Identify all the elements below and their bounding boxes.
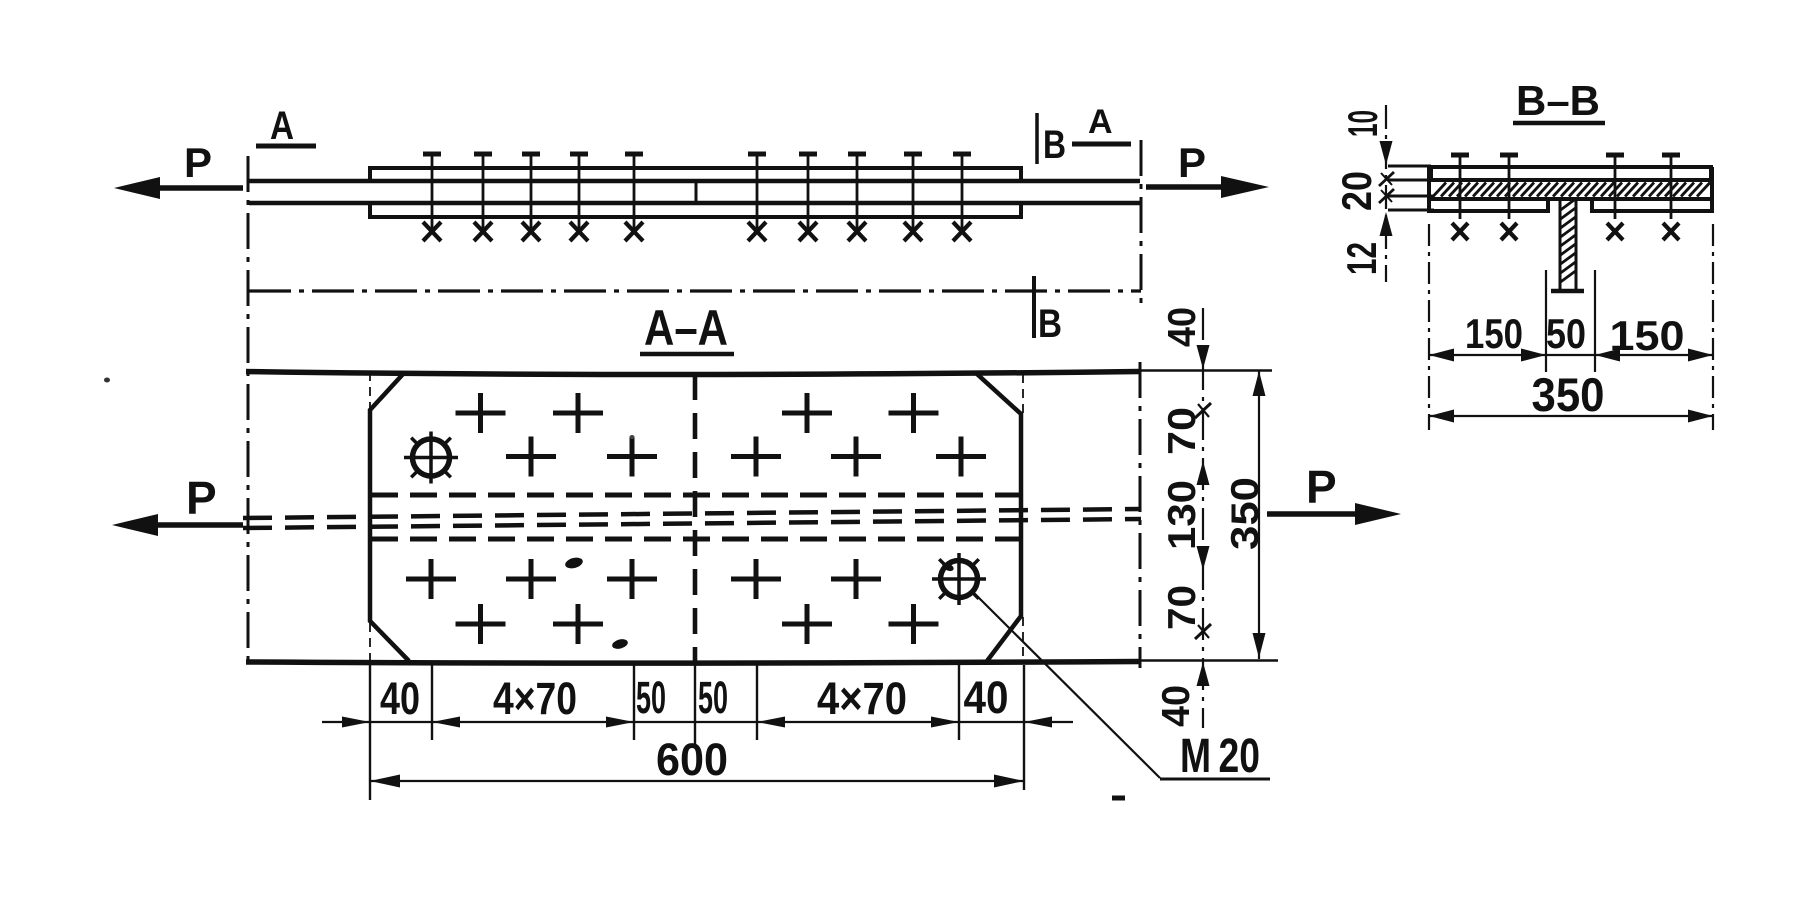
chain arrow up at y=461 xyxy=(1197,461,1210,485)
arrows 350 (B-B) xyxy=(1429,410,1713,423)
bolt 8 (side view) xyxy=(848,154,866,241)
circled bolt M20 upper-left (plan) xyxy=(404,432,458,484)
bolt cross row1 col4 (plan) xyxy=(553,393,603,433)
splice plate left edge with chamfers xyxy=(370,373,409,661)
svg-text:12: 12 xyxy=(1338,242,1385,275)
section mark B top tick xyxy=(1035,113,1039,164)
witness dash-dot left x=1429 (B-B) xyxy=(1428,224,1430,430)
bottom cover plate right (B-B) xyxy=(1592,199,1712,211)
svg-text:B–B: B–B xyxy=(1516,77,1600,124)
hidden edge dashed lower xyxy=(371,537,1020,542)
bolt 2 (side view) xyxy=(474,154,492,241)
svg-text:600: 600 xyxy=(656,734,728,785)
bolt 4 (side view) xyxy=(570,154,588,241)
witness line x=695 (center) xyxy=(694,665,696,744)
svg-text:A–A: A–A xyxy=(644,300,728,356)
svg-text:P: P xyxy=(186,472,217,524)
main plate top edge (B-B) xyxy=(1428,178,1714,182)
ink blob speck 2 xyxy=(611,638,629,651)
svg-text:P: P xyxy=(184,139,212,186)
bolt 3 (side view) xyxy=(522,154,540,241)
dimension line 350 (B-B) xyxy=(1429,415,1713,417)
bolt 5 (side view) xyxy=(625,154,643,241)
leader line from circled bolt xyxy=(973,592,1160,778)
main strip bottom edge extension (thin) xyxy=(1140,659,1278,661)
bolt cross row2 col5 (plan) xyxy=(607,437,657,477)
ink blob speck 3 xyxy=(941,561,955,572)
splice plate right edge with chamfers xyxy=(977,374,1021,661)
bolt cross row1 col7 (plan) xyxy=(782,393,832,433)
hidden edge dashed upper xyxy=(371,493,1020,498)
bolt 10 (side view) xyxy=(953,154,971,241)
web rib (B-B) xyxy=(1560,200,1576,289)
title B-B underline xyxy=(1513,121,1605,126)
stray scan dash xyxy=(1112,796,1125,801)
force arrow P right (top view) xyxy=(1146,184,1225,190)
witness dashed at plate left edge top xyxy=(369,372,371,408)
svg-text:M 20: M 20 xyxy=(1180,730,1260,783)
oblique tick y=197 (B-B) xyxy=(1379,189,1394,203)
bolt 4 (B-B) xyxy=(1662,155,1680,240)
bolt 6 (side view) xyxy=(748,154,766,241)
witness line x=1024 xyxy=(1023,665,1025,790)
bolt 1 (side view) xyxy=(423,154,441,241)
witness dashed at plate right corner bottom xyxy=(1022,617,1024,660)
svg-text:40: 40 xyxy=(964,672,1009,723)
svg-text:130: 130 xyxy=(1161,480,1204,550)
svg-text:350: 350 xyxy=(1224,477,1267,550)
dim arrows row 2 xyxy=(370,775,1024,788)
bolt cross row3 col6 (plan) xyxy=(731,559,781,599)
oblique tick y=180 (B-B) xyxy=(1379,172,1394,186)
main bar top edge (side view) xyxy=(249,179,1140,184)
web rib break line (B-B) xyxy=(1551,289,1584,294)
witness line x=1595 (B-B) xyxy=(1594,270,1596,372)
arrow up to plate bottom (B-B) xyxy=(1380,212,1393,236)
main bar butt joint line (side view) xyxy=(695,181,698,204)
ink blob speck 1 xyxy=(564,556,584,570)
svg-text:70: 70 xyxy=(1161,585,1204,630)
bolt cross row4 col4 (plan) xyxy=(553,604,603,644)
chain arrow down at strip top xyxy=(1197,345,1210,369)
bolt cross row2 col6 (plan) xyxy=(731,437,781,477)
bolt 1 (B-B) xyxy=(1451,155,1469,240)
bottom cover plate left (B-B) xyxy=(1429,199,1548,211)
top cover plate (B-B) xyxy=(1431,167,1711,180)
chain arrow down at y=570 xyxy=(1197,546,1210,570)
bolt cross row2 col10 (plan) xyxy=(936,437,986,477)
main strip top edge (plan) xyxy=(246,372,1140,375)
svg-text:150: 150 xyxy=(1465,310,1523,357)
bolt cross row1 col2 (plan) xyxy=(456,393,506,433)
bolt cross row4 col9 (plan) xyxy=(889,604,939,644)
bolt cross row2 col3 (plan) xyxy=(506,437,556,477)
bolt 9 (side view) xyxy=(904,154,922,241)
hidden rib edge dashed pair upper xyxy=(243,509,1141,518)
svg-text:40: 40 xyxy=(1155,685,1198,727)
force arrow P left (plan) xyxy=(128,522,243,528)
svg-text:A: A xyxy=(1088,103,1113,141)
bolt cross row3 col5 (plan) xyxy=(607,559,657,599)
dimension line 150-50-150 (B-B) xyxy=(1429,354,1713,356)
scan speck dot left xyxy=(104,378,110,383)
svg-text:B: B xyxy=(1043,123,1066,167)
witness lines left (B-B) xyxy=(1388,166,1434,210)
bolt 2 (B-B) xyxy=(1500,155,1518,240)
bolt cross row2 col8 (plan) xyxy=(831,437,881,477)
bottom cover plate (side view) xyxy=(370,201,1021,217)
350 arrows xyxy=(1253,371,1266,658)
svg-text:50: 50 xyxy=(1546,310,1586,357)
witness line x=757 xyxy=(756,665,758,740)
svg-text:40: 40 xyxy=(380,673,420,724)
svg-text:A: A xyxy=(270,104,294,148)
circled bolt M20 lower-right (plan) xyxy=(932,553,986,605)
witness dashed at plate right corner top xyxy=(1022,374,1024,414)
main plate bottom edge (B-B) xyxy=(1428,197,1714,201)
witness line x=959 xyxy=(958,665,960,740)
svg-text:350: 350 xyxy=(1532,368,1605,421)
main plate hatching (B-B) xyxy=(1433,183,1710,197)
svg-text:50: 50 xyxy=(698,672,728,723)
arrows 150-50-150 (B-B) xyxy=(1429,349,1713,362)
hidden rib edge dashed pair lower xyxy=(243,519,1141,528)
main strip bottom edge (plan) xyxy=(246,662,1140,664)
bolt cross row3 col8 (plan) xyxy=(831,559,881,599)
dim arrows row 1 xyxy=(342,717,1052,728)
svg-text:50: 50 xyxy=(636,672,666,723)
bolt cross row3 col3 (plan) xyxy=(506,559,556,599)
witness dash-dot right x=1713 (B-B) xyxy=(1712,224,1714,430)
leader underline xyxy=(1160,778,1270,781)
witness line x=432 xyxy=(431,665,433,740)
vertical chain dimension line x=1203 xyxy=(1202,308,1204,728)
svg-text:P: P xyxy=(1306,461,1337,513)
centerline vertical left (dash-dot) xyxy=(247,156,250,666)
bolt 7 (side view) xyxy=(799,154,817,241)
butt joint hidden line (dashed vertical center) xyxy=(693,374,698,661)
oblique tick y=632 xyxy=(1195,624,1211,639)
witness line x=370 xyxy=(369,665,371,800)
arrow down to plate top (B-B) xyxy=(1380,141,1393,165)
dimension line row 2 (600) xyxy=(370,780,1024,782)
svg-text:10: 10 xyxy=(1339,110,1386,137)
oblique tick y=411 xyxy=(1195,403,1211,418)
horizontal centerline (dash-dot, top view) xyxy=(249,289,1141,292)
section mark B bottom tick xyxy=(1032,276,1036,338)
svg-text:40: 40 xyxy=(1161,307,1204,347)
bolt cross row4 col7 (plan) xyxy=(782,604,832,644)
witness line x=1546 (B-B) xyxy=(1545,270,1547,372)
dimension line 350 x=1259 xyxy=(1258,370,1260,659)
witness line x=634 xyxy=(633,665,635,740)
section mark A underline xyxy=(256,144,316,149)
title A-A underline xyxy=(640,352,734,357)
bolt cross row3 col1 (plan) xyxy=(406,559,456,599)
centerline vertical right (dash-dot, top view) xyxy=(1140,140,1143,308)
main bar bottom edge (side view) xyxy=(249,201,1140,206)
main plate end caps (B-B) xyxy=(1429,167,1712,211)
section mark A-right underline xyxy=(1072,142,1131,147)
top cover plate (side view) xyxy=(370,168,1021,182)
force arrow P right (plan) xyxy=(1267,511,1360,517)
bolt cross row1 col9 (plan) xyxy=(889,393,939,433)
left chain dim line (B-B) xyxy=(1385,105,1387,282)
witness dashed at plate left edge bottom xyxy=(369,623,371,662)
svg-text:B: B xyxy=(1038,302,1062,346)
web rib hatching (B-B) xyxy=(1561,199,1576,282)
svg-text:4×70: 4×70 xyxy=(493,673,577,724)
svg-text:4×70: 4×70 xyxy=(817,673,907,724)
centerline vertical right (dash-dot, plan) xyxy=(1139,362,1142,668)
scan speck dot center xyxy=(630,435,635,439)
chain arrow up at strip bottom xyxy=(1197,662,1210,686)
dimension line row 1 xyxy=(322,721,1073,723)
svg-text:20: 20 xyxy=(1333,171,1380,211)
main strip top edge extension (thin) xyxy=(1140,369,1272,371)
force arrow P left (top view) xyxy=(130,185,243,191)
bolt cross row4 col2 (plan) xyxy=(456,604,506,644)
svg-text:P: P xyxy=(1178,139,1206,186)
bolt 3 (B-B) xyxy=(1606,155,1624,240)
svg-text:150: 150 xyxy=(1610,312,1685,359)
svg-text:70: 70 xyxy=(1161,407,1204,455)
